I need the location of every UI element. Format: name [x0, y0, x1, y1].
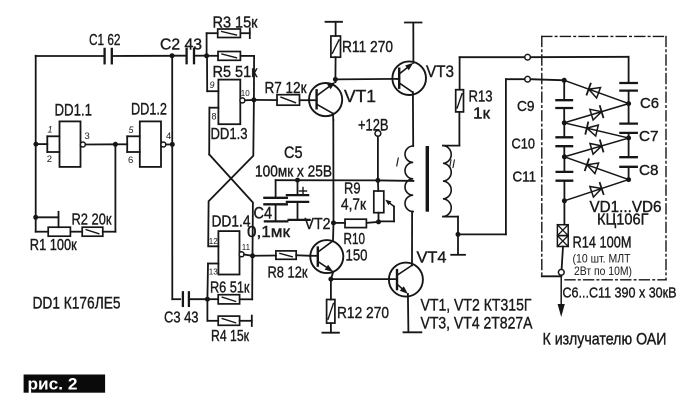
label R8 value [268, 264, 309, 281]
label winding II [449, 157, 456, 171]
wire VT3 collector up [412, 23, 414, 63]
wire VT2 collector up [332, 223, 335, 241]
capacitor C8 [620, 138, 636, 180]
capacitor C7 [620, 104, 636, 138]
diode VD2 [564, 104, 628, 123]
svg-text:VT2: VT2 [305, 216, 331, 233]
resistor R5 [207, 52, 255, 61]
node C junction [562, 120, 567, 125]
pin 2 of DD1.1 [47, 154, 52, 165]
svg-text:13: 13 [209, 268, 218, 277]
pin 12 of DD1.4 [209, 237, 218, 246]
svg-text:C5: C5 [284, 143, 303, 162]
svg-text:C1 62: C1 62 [89, 32, 121, 49]
svg-text:+12В: +12В [358, 116, 389, 135]
label C7 [639, 128, 659, 145]
node junction riser [170, 142, 175, 147]
node VT1e-VT2c junction [331, 220, 336, 225]
svg-text:C8: C8 [639, 162, 659, 179]
label cap spec [563, 285, 677, 302]
label R2 value [72, 212, 113, 229]
wire winding II bottom lead [443, 217, 458, 235]
label C6 [640, 95, 659, 112]
svg-text:R13: R13 [469, 89, 493, 106]
svg-text:4: 4 [166, 131, 171, 142]
capacitor C1 [105, 49, 172, 63]
svg-text:II: II [449, 157, 456, 171]
label C5 [284, 143, 303, 162]
capacitor C2 [172, 49, 207, 63]
wire +12V down [377, 136, 379, 180]
pin 10 bubble of DD1.3 [240, 98, 245, 103]
label VT4 [417, 249, 447, 266]
node DD1.1 input junction [33, 142, 38, 147]
svg-text:VT4: VT4 [417, 249, 447, 266]
wire left vertical rail [35, 56, 37, 232]
label R9 value [341, 197, 367, 214]
svg-text:DD1 К176ЛЕ5: DD1 К176ЛЕ5 [33, 294, 121, 313]
svg-text:3: 3 [85, 131, 90, 142]
node C5 top junction [295, 178, 300, 183]
dash-dot border top [542, 35, 666, 37]
transistor VT3 [392, 61, 426, 95]
svg-text:R9: R9 [344, 180, 361, 197]
node D junction [626, 136, 631, 141]
diode VD6 [564, 180, 628, 201]
wire VT3 emitter to winding I [412, 92, 414, 146]
pin 3 bubble of DD1.1 [80, 142, 85, 147]
node DD1.4 output junction [250, 253, 255, 258]
label VT3 [426, 62, 454, 81]
wire R13 top to terminal [460, 56, 525, 58]
svg-text:К излучателю ОАИ: К излучателю ОАИ [543, 331, 667, 349]
pin 9 of DD1.3 [207, 56, 218, 91]
resistor R11 [326, 22, 343, 80]
resistor R12 [327, 279, 335, 333]
svg-text:C7: C7 [639, 128, 659, 145]
wire terminal2 into block [530, 79, 564, 80]
supply tick above VT3 [405, 22, 422, 24]
label C4 value [247, 224, 291, 241]
capacitor C4 [264, 180, 287, 221]
svg-text:R7 12к: R7 12к [265, 80, 308, 97]
wire VT2e to VT4 base [331, 278, 397, 280]
svg-text:1: 1 [48, 125, 53, 135]
resistor R4 [207, 299, 251, 326]
svg-text:DD1.3: DD1.3 [211, 126, 248, 143]
capacitor C9 [556, 80, 572, 123]
label transistor types line1 [421, 297, 532, 315]
svg-text:С6...С11 390 х 30кВ: С6...С11 390 х 30кВ [563, 285, 677, 302]
label winding I [396, 155, 400, 170]
transformer T1 core [426, 146, 429, 212]
wire VT4 emitter down [407, 294, 410, 332]
svg-text:C9: C9 [517, 98, 535, 115]
label R10 [344, 231, 366, 248]
svg-text:6: 6 [128, 155, 133, 166]
label C3 value [164, 310, 199, 327]
trimmer R9 [374, 180, 394, 221]
ground tick below VT4 [404, 331, 422, 333]
pin 11 of DD1.4 [242, 243, 251, 252]
resistor R1 [36, 227, 82, 236]
node A input junction [562, 78, 567, 83]
node G junction [562, 198, 567, 203]
label VD part [597, 212, 649, 229]
svg-text:0,1мк: 0,1мк [247, 224, 291, 241]
gate DD1.3 [218, 80, 240, 125]
label R4 value [211, 328, 250, 345]
resistor R10 [334, 219, 379, 227]
label DD1 type [33, 294, 121, 313]
node +12V rail junction [375, 178, 380, 183]
label C4 [254, 203, 273, 222]
gate DD1.1 [36, 121, 81, 166]
label VT1 [344, 86, 376, 106]
label R13 value [473, 106, 491, 123]
node junction between gates [113, 142, 118, 147]
node junction tap [33, 215, 38, 220]
svg-text:R3 15к: R3 15к [213, 14, 259, 31]
diode VD3 [564, 122, 628, 138]
transistor VT4 [389, 263, 423, 297]
svg-text:8: 8 [212, 112, 217, 122]
ground tick below secondary [451, 234, 465, 254]
label DD1.1 [55, 101, 93, 120]
node junction C1-C2 [170, 53, 175, 58]
terminal multiplier input 2 [525, 76, 531, 82]
svg-text:150: 150 [346, 248, 368, 265]
terminal multiplier input 1 [525, 54, 531, 60]
svg-text:11: 11 [242, 243, 251, 252]
svg-text:VT1, VT2 КТ315Г: VT1, VT2 КТ315Г [421, 297, 532, 315]
pin 8 of DD1.3 [209, 108, 218, 155]
label DD1.2 [131, 100, 167, 119]
node junction C2-R3-R5 [204, 53, 209, 58]
pin 4 bubble of DD1.2 [161, 142, 166, 147]
svg-text:VT3, VT4 2Т827А: VT3, VT4 2Т827А [421, 315, 533, 333]
label C11 [513, 168, 537, 185]
transformer T1 winding I [405, 146, 413, 212]
svg-text:2Вт по 10М): 2Вт по 10М) [574, 264, 632, 278]
node F junction [626, 177, 631, 182]
dash-dot border right [665, 36, 667, 279]
resistor R8 [253, 251, 311, 259]
node junction C3-R6-R4 [205, 297, 210, 302]
wire VT2 emitter down [331, 272, 333, 279]
wire winding II top lead [443, 145, 459, 147]
wire DD1.1 out to DD1.2 in [85, 143, 115, 145]
gate DD1.4 [218, 231, 239, 274]
svg-text:R10: R10 [344, 231, 366, 248]
svg-text:R6 51к: R6 51к [210, 279, 250, 296]
pin 10 of DD1.3 [241, 89, 250, 98]
svg-text:R8 12к: R8 12к [268, 264, 309, 281]
wire top rail segment [36, 55, 105, 57]
svg-text:1к: 1к [473, 106, 491, 123]
pin 4 of DD1.2 [166, 131, 171, 142]
label transistor types line2 [421, 315, 533, 333]
terminal output [558, 269, 564, 275]
svg-text:R1 100к: R1 100к [30, 237, 78, 254]
svg-text:C11: C11 [513, 168, 537, 185]
label C5 value [255, 164, 332, 181]
wire terminal1 into block [530, 57, 628, 82]
node R9-R10 junction [376, 219, 381, 224]
diode VD4 [564, 138, 628, 157]
wire VT1 collector stub [334, 79, 336, 82]
label C8 [639, 162, 659, 179]
wire R1 tap [36, 212, 59, 227]
ground tick below R12 [322, 332, 339, 334]
wire VT1 emitter down [332, 113, 335, 222]
svg-text:C4: C4 [254, 203, 273, 222]
label R3 value [213, 14, 259, 31]
dash-dot border left [541, 36, 543, 276]
svg-text:DD1.2: DD1.2 [131, 100, 167, 119]
label R10 value [346, 248, 368, 265]
svg-text:C6: C6 [640, 95, 659, 112]
transformer T1 winding II [443, 146, 451, 217]
wire output arrow [558, 275, 565, 317]
svg-text:VT1: VT1 [344, 86, 376, 106]
svg-text:I: I [396, 155, 400, 170]
pin 6 of DD1.2 [128, 155, 133, 166]
label R1 value [30, 237, 78, 254]
svg-text:C10: C10 [512, 135, 536, 152]
svg-text:R5 51к: R5 51к [213, 64, 259, 81]
svg-text:4,7к: 4,7к [341, 197, 367, 214]
label output destination [543, 331, 667, 349]
node secondary bottom junction [456, 232, 461, 237]
capacitor C10 [557, 123, 573, 157]
node VT2 emitter junction [328, 277, 333, 282]
wire R5 riser to DD1.3 output node [253, 56, 255, 100]
svg-text:9: 9 [210, 80, 215, 90]
capacitor C5 [287, 180, 310, 220]
capacitor C3 [172, 292, 207, 306]
label R5 value [213, 64, 259, 81]
svg-text:100мк х 25В: 100мк х 25В [255, 164, 332, 181]
svg-text:R14 100М: R14 100М [573, 234, 632, 251]
wire border-corner to output terminal [542, 275, 562, 277]
node DD1.3 output junction [251, 97, 256, 102]
resistor R6 [207, 256, 252, 304]
diode VD1 [564, 80, 628, 103]
resistor R14 [557, 201, 568, 270]
node B junction [626, 101, 631, 106]
svg-text:DD1.4: DD1.4 [212, 213, 251, 230]
label R14 value [573, 234, 632, 251]
svg-text:рис. 2: рис. 2 [28, 375, 78, 393]
capacitor C11 [557, 157, 573, 201]
label DD1.3 [211, 126, 248, 143]
wire cross-couple A (DD1.4 out to DD1.3 pin8) [209, 154, 253, 255]
node E junction [562, 154, 567, 159]
pin 1 of DD1.1 [48, 125, 53, 135]
label R13 [469, 89, 493, 106]
label R14 note1 [573, 252, 632, 266]
label R11 value [342, 39, 393, 56]
label R14 note2 [574, 264, 632, 278]
caption рис.2 badge [24, 375, 106, 394]
pin 11 bubble of DD1.4 [239, 252, 244, 257]
svg-text:C2 43: C2 43 [160, 37, 202, 54]
label +12V [358, 116, 389, 135]
svg-text:R2 20к: R2 20к [72, 212, 113, 229]
resistor R3 [207, 28, 250, 56]
label VD types [590, 199, 662, 216]
diode VD5 [564, 157, 628, 180]
pin 13 of DD1.4 [207, 264, 218, 300]
wire DD1.2 out to riser [166, 143, 172, 145]
label R9 [344, 180, 361, 197]
wire DD1.4 out [244, 255, 252, 256]
node VT1 collector junction [333, 77, 338, 82]
pin 5 of DD1.2 [129, 125, 135, 135]
wire riser up to terminal 2 [506, 79, 525, 234]
dash-dot border bottom [565, 279, 666, 281]
svg-text:VT3: VT3 [426, 62, 454, 81]
label DD1.4 [212, 213, 251, 230]
wire VT4 collector up to winding I [411, 212, 413, 266]
wire cross-couple B (DD1.3 out to DD1.4 pin12) [208, 100, 254, 246]
label C9 [517, 98, 535, 115]
pin 3 of DD1.1 [85, 131, 90, 142]
svg-text:10: 10 [241, 89, 250, 98]
label VT2 [305, 216, 331, 233]
wire +12V rail [276, 179, 414, 182]
wire base rail to VT3 [335, 78, 397, 81]
transistor VT1 [309, 82, 342, 116]
wire secondary bottom to riser [458, 233, 506, 235]
resistor R2 [82, 227, 115, 236]
label C2 value [160, 37, 202, 54]
label C10 [512, 135, 536, 152]
transistor VT2 [310, 240, 343, 273]
wire center riser (C1C2 node down to C3) [171, 56, 173, 300]
terminal +12V [375, 131, 381, 137]
svg-text:C3 43: C3 43 [164, 310, 199, 327]
capacitor C6 [620, 82, 636, 103]
resistor R13 [456, 57, 464, 145]
svg-text:R11 270: R11 270 [342, 39, 393, 56]
svg-text:DD1.1: DD1.1 [55, 101, 93, 120]
svg-text:КЦ106Г: КЦ106Г [597, 212, 649, 229]
wire riser from gates node down to R2 [114, 144, 116, 231]
label R12 value [337, 305, 389, 322]
label R7 value [265, 80, 308, 97]
resistor R7 [254, 95, 309, 106]
label R6 value [210, 279, 250, 296]
svg-text:2: 2 [47, 154, 52, 165]
svg-text:R4 15к: R4 15к [211, 328, 250, 345]
gate DD1.2 [115, 121, 161, 166]
svg-text:R12 270: R12 270 [337, 305, 389, 322]
svg-text:12: 12 [209, 237, 218, 246]
label C1 value [89, 32, 121, 49]
wire DD1.3 out [245, 99, 254, 101]
